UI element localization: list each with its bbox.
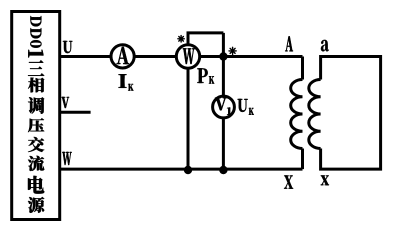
source box label 'D' (rotated) — [31, 28, 42, 38]
source box label '1' (rotated) — [28, 50, 43, 58]
transformer primary winding (A-X) — [301, 57, 304, 80]
label V (source terminal) — [62, 97, 70, 108]
transformer secondary winding (a-x) with shorting loop — [321, 57, 381, 170]
junction node: wattmeter return on bottom wire — [184, 166, 192, 174]
voltmeter V1 circle — [213, 96, 235, 118]
polarity asterisk at wattmeter voltage tap — [229, 47, 236, 54]
polarity asterisk at wattmeter current coil — [178, 36, 184, 42]
wire: node down through voltmeter to bottom wire — [222, 33, 225, 169]
ammeter A1 circle — [111, 45, 134, 68]
source box label '源' — [28, 197, 44, 213]
wire: wattmeter voltage-coil bypass (up over circle to node) — [188, 33, 223, 57]
label P (of Pk) — [197, 68, 207, 83]
label K subscript (of Ik) — [128, 84, 133, 91]
voltmeter letter V — [215, 98, 227, 111]
wattmeter letter W — [183, 48, 195, 64]
voltmeter subscript 1 — [227, 107, 231, 114]
label a (secondary terminal) — [321, 40, 329, 51]
junction node: wattmeter voltage tap on top wire — [219, 52, 227, 60]
source box label '流' — [28, 156, 44, 171]
wire: W phase bottom (source W to transformer X) — [60, 168, 303, 171]
wire: wattmeter bottom to bottom wire — [187, 57, 190, 170]
wire: U phase top (source U to junctions to transformer A) — [60, 55, 303, 58]
source box label 'D' (rotated) — [31, 16, 42, 26]
label W (source terminal) — [62, 152, 71, 165]
source box label '交' — [28, 137, 44, 152]
ammeter letter A — [117, 47, 129, 64]
label K subscript (of Pk) — [209, 76, 214, 83]
label U (of Uk) — [238, 99, 248, 112]
label A (primary terminal) — [285, 36, 293, 51]
source box DD01 — [12, 12, 60, 220]
junction node: voltmeter return on bottom wire — [219, 166, 227, 174]
source box label '相' — [28, 78, 44, 93]
wire: V phase stub — [60, 111, 91, 114]
label x (secondary terminal) — [321, 176, 329, 186]
wattmeter W circle — [176, 45, 199, 68]
label U (source terminal) — [63, 41, 73, 53]
label X (primary terminal) — [284, 176, 293, 189]
label I (of Ik) — [119, 74, 127, 88]
source box label '电' — [28, 176, 44, 194]
source box label '0' (rotated) — [30, 40, 41, 48]
source box label '压' — [28, 118, 44, 132]
label K subscript (of Uk) — [249, 108, 254, 115]
source box label '调' — [28, 97, 44, 114]
source box label '三' — [28, 60, 44, 76]
